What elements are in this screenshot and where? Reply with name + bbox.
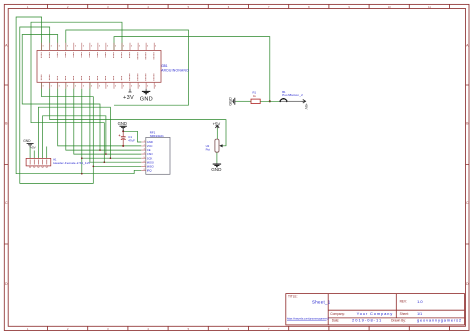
junction on MOSI net bbox=[104, 161, 106, 163]
wire pin1-top / SCK-L1 outer loop bbox=[16, 17, 134, 174]
svg-text:C: C bbox=[5, 201, 8, 205]
svg-text:CSN: CSN bbox=[147, 152, 153, 156]
GND flag above C1 bbox=[118, 121, 127, 132]
svg-text:+5V: +5V bbox=[30, 145, 35, 149]
arduino pin name marks (vertical text suggestions) bbox=[41, 52, 154, 80]
svg-text:Header-Female-2.54_1x5: Header-Female-2.54_1x5 bbox=[53, 161, 90, 165]
wire SCK line to NRF bbox=[82, 89, 142, 174]
svg-text:+5V: +5V bbox=[304, 103, 308, 110]
header H1 bbox=[26, 158, 51, 166]
GND flag header pin1 bbox=[23, 139, 33, 147]
title block bbox=[286, 294, 465, 325]
junction on VCC net at C1 bottom bbox=[122, 145, 124, 147]
wire NRF IRQ down-left loop bbox=[134, 170, 141, 173]
svg-text:REV:: REV: bbox=[400, 300, 407, 304]
wire pin3-top / bus1 to CE tee bbox=[22, 35, 100, 151]
svg-text:2019-08-11: 2019-08-11 bbox=[352, 318, 382, 323]
svg-text:Sheet_1: Sheet_1 bbox=[312, 300, 331, 305]
wire pin2-bottom to pot wiper bbox=[50, 82, 226, 146]
svg-text:GND: GND bbox=[147, 140, 153, 144]
junction on GND net at C1 top bbox=[122, 130, 124, 132]
wire pin5-bottom to NRF CSN bbox=[74, 82, 142, 154]
wire pin10-top to pushbutton junction bbox=[114, 37, 270, 102]
svg-text:GND: GND bbox=[140, 97, 153, 103]
arduino GB1 body bbox=[37, 51, 161, 83]
arduino GB1 label bbox=[161, 64, 189, 73]
svg-text:Sheet:: Sheet: bbox=[400, 312, 409, 316]
top margin ticks bbox=[48, 4, 450, 8]
junction on MISO net bbox=[93, 166, 95, 168]
svg-text:ARDUINONANO: ARDUINONANO bbox=[161, 69, 189, 73]
svg-text:GND: GND bbox=[23, 139, 31, 143]
+5V flag rotated right bbox=[301, 100, 307, 111]
svg-text:TITLE:: TITLE: bbox=[288, 294, 298, 298]
svg-text:MOSI: MOSI bbox=[147, 160, 154, 164]
svg-text:MISO: MISO bbox=[147, 164, 154, 168]
svg-text:Your Company: Your Company bbox=[357, 311, 394, 316]
wire header pin4 up to bus, over to CSN tee bbox=[43, 116, 106, 159]
left margin ticks bbox=[4, 85, 8, 244]
wire button to +5V bbox=[288, 100, 302, 102]
wire header pin2 +5V stub bbox=[33, 151, 35, 159]
wire gnd to resistor bbox=[236, 100, 251, 102]
wire MISO line to NRF bbox=[93, 165, 141, 167]
junction on SCK net right bbox=[110, 157, 112, 159]
wire pin11-top / bus2 to SCK tee bbox=[31, 22, 122, 162]
wire pin7-bottom to NRF MOSI bbox=[90, 82, 141, 162]
resistor R1 bbox=[251, 99, 260, 103]
GND power flag under arduino bbox=[140, 89, 153, 103]
svg-text:D: D bbox=[466, 282, 469, 286]
+5V flag header pin2 bbox=[30, 145, 35, 149]
svg-text:PushButton_2: PushButton_2 bbox=[282, 93, 303, 97]
GND flag rotated left bbox=[229, 97, 236, 106]
wire pin2-top / MISO-L2 loop bbox=[20, 27, 94, 183]
svg-text:D: D bbox=[5, 282, 8, 286]
svg-text:CE: CE bbox=[147, 148, 151, 152]
svg-text:IRQ: IRQ bbox=[147, 168, 152, 172]
capacitor C1 bbox=[119, 131, 136, 146]
svg-text:C: C bbox=[466, 201, 469, 205]
svg-text:GND: GND bbox=[211, 167, 222, 172]
NRF pins bbox=[141, 142, 146, 170]
svg-text:VCC: VCC bbox=[147, 144, 153, 148]
potentiometer U2 bbox=[206, 121, 223, 171]
svg-text:GB1: GB1 bbox=[161, 64, 168, 68]
wire header pin3 up to bus, over to SCK tee bbox=[38, 107, 110, 158]
right margin ticks bbox=[466, 85, 470, 244]
svg-text:Drawn By:: Drawn By: bbox=[391, 319, 406, 323]
+3V power flag under arduino bbox=[123, 89, 134, 101]
svg-text:Pot: Pot bbox=[206, 148, 211, 152]
wire pot top bbox=[216, 128, 218, 139]
junction on CSN net bbox=[105, 153, 107, 155]
svg-text:47uF: 47uF bbox=[128, 139, 135, 143]
junction on CE net bbox=[99, 149, 101, 151]
svg-text:GND: GND bbox=[118, 121, 127, 126]
svg-text:+5V: +5V bbox=[213, 121, 221, 126]
svg-text:SCK: SCK bbox=[147, 156, 153, 160]
wire header pin1 gnd stub bbox=[29, 147, 31, 158]
bottom margin ticks bbox=[48, 326, 450, 330]
svg-text:1/1: 1/1 bbox=[417, 312, 422, 316]
svg-text:https://easyeda.com/geovannyga: https://easyeda.com/geovannygamers2 bbox=[287, 318, 330, 321]
svg-text:geovannygamers2: geovannygamers2 bbox=[417, 318, 462, 323]
svg-text:NRF24L01: NRF24L01 bbox=[150, 134, 164, 138]
wire GND flag to NRF pin1 bbox=[123, 131, 141, 142]
wire pin3-bottom to NRF VCC bbox=[58, 82, 142, 146]
wire resistor to button bbox=[260, 100, 280, 102]
svg-text:Company:: Company: bbox=[330, 312, 345, 316]
junction on SCK net left bbox=[81, 157, 83, 159]
svg-text:+3V: +3V bbox=[123, 95, 134, 101]
wire pot bottom bbox=[216, 152, 218, 163]
junction on SCK/IRQ bottom wire bbox=[81, 173, 83, 175]
arduino pins top and bottom bbox=[42, 43, 155, 89]
wire pin4-top right loop bbox=[66, 30, 189, 105]
NRF24L01 RF1 bbox=[146, 137, 170, 174]
pushbutton B1 bbox=[279, 90, 303, 102]
svg-text:1.0: 1.0 bbox=[417, 299, 423, 304]
wire header pin5 stub up bbox=[46, 147, 48, 159]
wire pin4-bottom to NRF CE bbox=[66, 82, 142, 150]
frame row letters bbox=[5, 43, 469, 285]
svg-text:Date:: Date: bbox=[332, 319, 340, 323]
junction at R1/B1/pin10 node bbox=[269, 100, 271, 102]
